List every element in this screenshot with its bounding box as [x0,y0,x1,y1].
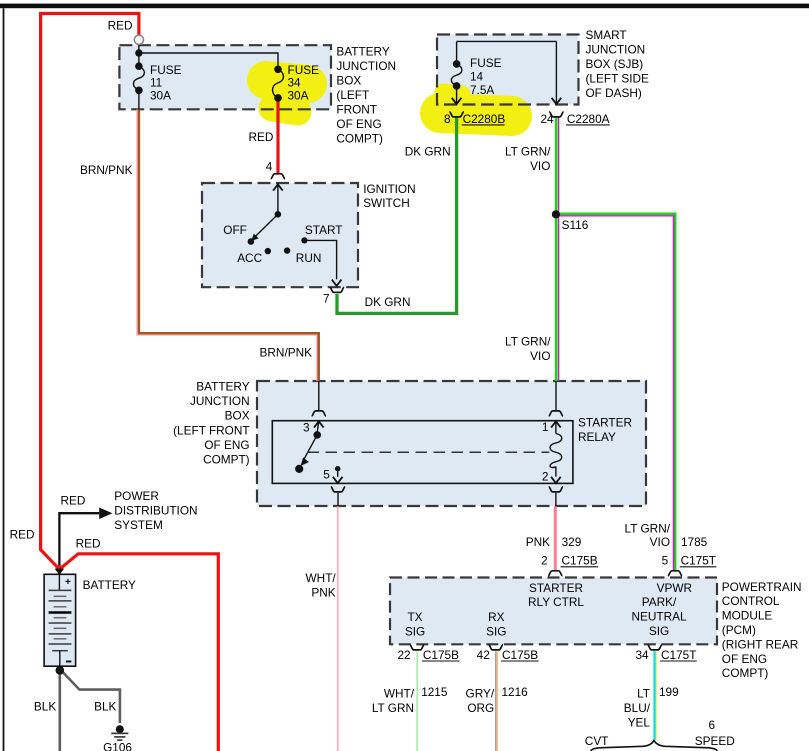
svg-text:OFF: OFF [223,223,247,237]
svg-text:IGNITION: IGNITION [363,182,415,196]
svg-text:(LEFT SIDE: (LEFT SIDE [586,71,649,85]
wire WHT/LT GRN PCM pin 22 down [416,651,418,751]
svg-text:DK GRN: DK GRN [365,295,411,309]
relay blade contact [295,465,303,473]
wire BLK battery negative to ground G106 [60,669,120,723]
connector C175T pin 34 [648,645,662,650]
svg-text:MODULE: MODULE [722,609,773,623]
svg-text:1785: 1785 [681,535,708,549]
svg-text:30A: 30A [288,88,309,102]
svg-text:JUNCTION: JUNCTION [336,59,396,73]
svg-text:START: START [305,223,343,237]
battery junction box (fuses) outline fill [119,45,331,109]
relay pin 3 lead [318,381,320,410]
svg-text:POWERTRAIN: POWERTRAIN [722,580,802,594]
page frame top border [0,4,809,9]
svg-text:8: 8 [444,112,451,126]
svg-text:BATTERY: BATTERY [196,380,249,394]
connector C175T pin 5 [668,571,682,576]
relay coil [550,434,562,468]
wire RED fuse 34 to ignition switch pin 4 [276,98,279,174]
svg-text:BATTERY: BATTERY [336,44,389,58]
node circle to bus junction [138,45,140,53]
svg-text:14: 14 [470,69,484,83]
svg-text:STARTER: STARTER [529,581,583,595]
svg-text:RED: RED [10,528,35,542]
ignition pivot contact [275,211,282,218]
svg-text:VIO: VIO [650,535,670,549]
svg-text:RED: RED [108,19,133,33]
svg-text:VPWR: VPWR [657,581,692,595]
battery positive junction [56,565,63,572]
connector SJB pin 24 [552,98,562,104]
svg-text:BLK: BLK [34,700,56,714]
svg-text:BLU/: BLU/ [624,701,651,715]
connector pin 4 ignition [271,174,285,179]
ignition switch box fill [202,183,358,287]
svg-text:TX: TX [407,610,422,624]
svg-text:199: 199 [659,685,679,699]
svg-text:PARK/: PARK/ [642,595,677,609]
wire PNK relay pin 2 to PCM starter rly ctrl [554,506,557,570]
svg-text:RED: RED [61,494,86,508]
svg-text:CONTROL: CONTROL [722,594,780,608]
svg-text:NEUTRAL: NEUTRAL [631,610,687,624]
ignition internal lead pin 4 [277,184,279,214]
svg-text:PNK: PNK [526,535,550,549]
ignition ACC contact [265,248,271,254]
node S116 splice [552,210,560,218]
ignition RUN contact [284,247,290,253]
svg-text:RELAY: RELAY [578,430,616,444]
svg-text:1: 1 [542,420,549,434]
PCM box fill [390,578,717,645]
svg-text:OF ENG: OF ENG [722,652,767,666]
relay pin5 contact [335,466,340,471]
starter relay inner box [272,421,573,484]
bus to fuse 34 [139,53,278,66]
svg-text:COMPT): COMPT) [336,131,383,145]
svg-text:C2280A: C2280A [567,112,610,126]
svg-text:329: 329 [562,535,582,549]
wire WHT/PNK relay pin 5 down [337,506,339,751]
6-speed component brace [591,741,717,751]
connector relay pin 2 [551,477,561,483]
fuse 11 terminals [135,62,143,70]
svg-text:BOX: BOX [336,73,361,87]
svg-text:PNK: PNK [311,586,335,600]
svg-text:DK GRN: DK GRN [405,145,451,159]
wire RED from top to battery and to fuse 11 [41,14,139,570]
svg-text:BOX: BOX [225,409,250,423]
svg-text:6: 6 [709,718,716,732]
svg-text:ORG: ORG [467,701,494,715]
wire LT BLU/YEL PCM pin 34 down [653,651,655,740]
connector name underlines [422,125,716,661]
svg-text:C175T: C175T [661,648,696,662]
svg-text:42: 42 [477,648,490,662]
connector C175B pin 42 [489,645,503,650]
svg-text:G106: G106 [103,741,132,751]
svg-text:SIG: SIG [486,625,506,639]
svg-text:VIO: VIO [530,349,550,363]
svg-text:RED: RED [249,130,274,144]
node bus junction [135,49,142,56]
svg-text:VIO: VIO [530,159,550,173]
INTERNAL LINES [133,41,561,506]
fuse 34 terminals [274,66,282,74]
svg-text:POWER: POWER [114,489,159,503]
svg-text:C175B: C175B [562,554,598,568]
svg-text:OF DASH): OF DASH) [586,86,642,100]
highlight over connector C2280B [440,92,512,116]
svg-text:LT GRN: LT GRN [372,701,414,715]
smart junction box fill [437,35,579,105]
svg-text:C175T: C175T [681,554,716,568]
svg-text:DISTRIBUTION: DISTRIBUTION [114,504,197,518]
svg-text:ACC: ACC [237,251,262,265]
wire RED battery to starter [59,554,218,751]
connector relay pin 5 [333,477,343,483]
page frame left border [3,8,5,751]
svg-text:(PCM): (PCM) [722,623,756,637]
svg-text:YEL: YEL [628,715,651,729]
svg-text:2: 2 [542,469,549,483]
wire black to power distribution system [59,513,99,568]
svg-text:FUSE: FUSE [470,56,502,70]
svg-text:SIG: SIG [649,624,669,638]
svg-text:RED: RED [76,536,101,550]
svg-text:(LEFT: (LEFT [336,88,369,102]
svg-text:24: 24 [540,112,554,126]
relay switch blade [304,435,318,460]
ignition start contact wire to pin 7 [304,240,336,279]
connector C175B pin 22 [410,645,424,650]
svg-text:7: 7 [323,292,330,306]
smart junction box dashed border [437,35,579,105]
svg-text:OF ENG: OF ENG [204,438,249,452]
svg-text:LT GRN/: LT GRN/ [505,335,551,349]
svg-text:BRN/PNK: BRN/PNK [80,163,133,177]
svg-text:BOX (SJB): BOX (SJB) [586,57,644,71]
wire GRY/ORG PCM pin 42 down [495,651,497,751]
svg-text:STARTER: STARTER [578,416,632,430]
ignition switch dashed border [202,183,358,287]
svg-text:COMPT): COMPT) [203,453,250,467]
svg-text:RX: RX [488,610,505,624]
svg-text:SIG: SIG [405,625,425,639]
ignition switch blade [254,214,278,237]
connector SJB pin 8 [452,98,462,104]
SJB pin 24 internal lead [555,41,557,102]
svg-text:SYSTEM: SYSTEM [114,518,163,532]
wire LT GRN/VIO S116 branch to PCM VPWR [555,214,675,571]
svg-text:BLK: BLK [94,700,116,714]
svg-text:LT: LT [637,687,650,701]
svg-text:GRY/: GRY/ [466,687,495,701]
svg-text:30A: 30A [150,88,171,102]
ignition OFF contact [248,238,255,245]
svg-text:C175B: C175B [423,648,459,662]
svg-text:WHT/: WHT/ [306,571,337,585]
battery negative junction [56,666,65,675]
svg-text:1216: 1216 [502,685,529,699]
fuse 14 terminals [453,60,461,68]
svg-text:OF ENG: OF ENG [336,117,381,131]
ignition START contact [301,237,307,243]
svg-text:SWITCH: SWITCH [363,196,410,210]
svg-text:JUNCTION: JUNCTION [586,43,646,57]
relay battery junction box fill [257,381,646,506]
connector pin 7 ignition [332,280,342,286]
node open circle above BJB [134,35,143,44]
svg-text:BRN/PNK: BRN/PNK [260,346,313,360]
svg-text:BATTERY: BATTERY [83,578,136,592]
svg-text:WHT/: WHT/ [384,687,415,701]
svg-text:RUN: RUN [296,251,322,265]
svg-text:(RIGHT REAR: (RIGHT REAR [722,637,798,651]
svg-text:7.5A: 7.5A [470,83,494,97]
svg-text:C175B: C175B [502,648,538,662]
relay pin 1 lead [555,381,557,410]
wire BLK battery negative down [58,669,61,751]
svg-text:S116: S116 [562,218,589,232]
fuse F14 element [451,64,462,86]
svg-text:FRONT: FRONT [336,102,377,116]
svg-text:RLY CTRL: RLY CTRL [528,595,584,609]
svg-text:3: 3 [303,421,310,435]
ignition blade arrowhead [251,234,258,241]
svg-text:1215: 1215 [421,685,448,699]
SJB internal bus [457,40,557,42]
connector relay pin 3 [312,411,326,416]
bus to fuse 11 [138,53,140,66]
battery junction box dashed border [119,45,331,109]
svg-text:4: 4 [266,160,273,174]
connector relay pin 1 [549,411,563,416]
svg-text:JUNCTION: JUNCTION [190,394,250,408]
connector C175B pin 2 [548,571,562,576]
relay pin 5 lead [337,469,339,477]
svg-text:LT GRN/: LT GRN/ [505,145,551,159]
wire DK GRN ignition pin 7 to SJB pin 8 [337,118,457,314]
highlight over fuse 34 [266,80,308,112]
svg-text:COMPT): COMPT) [722,666,769,680]
relay mechanical dashed link [308,451,550,453]
relay battery junction box dashed border [257,381,646,506]
ground G106 symbol [116,725,124,733]
svg-text:SMART: SMART [586,28,627,42]
svg-text:5: 5 [662,554,669,568]
svg-text:2: 2 [541,554,548,568]
wire LT GRN/VIO SJB pin 24 to starter relay pin 1 [555,118,558,382]
svg-text:34: 34 [635,648,649,662]
relay blade pivot [313,431,321,439]
svg-text:22: 22 [397,648,410,662]
svg-text:LT GRN/: LT GRN/ [625,522,671,536]
svg-text:5: 5 [323,468,330,482]
wire BRN/PNK fuse 11 to relay pin 3 [139,109,319,381]
svg-text:+: + [65,577,71,588]
battery BATTERY symbol [44,574,76,666]
svg-text:SPEED: SPEED [695,734,735,748]
fuse F34 element [273,69,284,98]
fuse F11 element [133,66,144,90]
svg-text:C2280B: C2280B [463,112,506,126]
svg-text:(LEFT FRONT: (LEFT FRONT [173,423,249,437]
PCM dashed border [390,578,717,645]
svg-text:CVT: CVT [585,734,609,748]
relay blade arrowhead [301,457,309,466]
